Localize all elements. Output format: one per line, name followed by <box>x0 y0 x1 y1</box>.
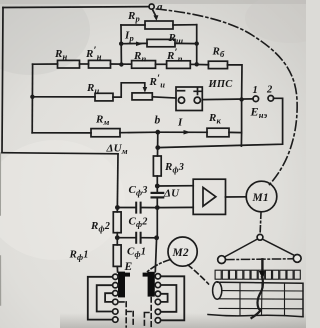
junction dot Cf2 left <box>115 205 120 210</box>
resistor Rf2 (vertical) <box>113 212 121 233</box>
wire Rf3 to Cf3 <box>156 176 158 193</box>
resistor Rpn' <box>167 61 191 69</box>
recorder scale bar <box>215 270 221 279</box>
wire IPS to bus junction and terminal 1 <box>202 98 253 101</box>
wire Rn to Rn-prime <box>80 63 89 65</box>
wire top from left frame corner to node a <box>3 6 149 9</box>
wire Rb to right bus corner <box>228 65 243 100</box>
node a <box>149 4 154 9</box>
right switch wiper bar <box>148 272 155 297</box>
left switch dashed continuation <box>120 302 134 327</box>
node b <box>155 130 160 135</box>
wire Ri to wiper riser <box>113 83 145 97</box>
svg-text:M1: M1 <box>252 192 269 204</box>
svg-text:2: 2 <box>266 85 273 96</box>
motor M1 <box>246 181 277 212</box>
pulley left <box>218 256 226 264</box>
right switch contacts <box>155 274 160 279</box>
box IPS (normal-element comparator) <box>176 87 202 111</box>
junction dot Cf1 right on bus <box>154 235 159 240</box>
dash-dot carriage cord <box>226 258 293 261</box>
junction dot Ri row <box>30 95 34 99</box>
potentiometer Ri' <box>132 93 152 100</box>
left switch contacts <box>113 274 118 279</box>
svg-text:b: b <box>155 115 161 127</box>
svg-text:I: I <box>177 117 183 129</box>
wire b bus down to Rf3 <box>157 132 159 156</box>
wire Cf3 down to lower tap <box>156 198 158 238</box>
wire Rsh row right <box>175 42 197 44</box>
recorder cord triangle <box>224 239 296 258</box>
resistor Rn <box>58 60 80 68</box>
svg-text:ИПС: ИПС <box>208 79 234 90</box>
junction dots top loop <box>119 42 123 46</box>
left switch wiper bar <box>118 272 125 298</box>
wire Rpn-prime to junction <box>190 63 208 65</box>
junction dot Cf1 left <box>115 235 120 240</box>
wire left outer bus <box>2 8 3 153</box>
wire top-loop right vertical <box>196 25 198 65</box>
pen arrow <box>261 259 263 271</box>
op-amp box (amplifier) <box>193 179 225 214</box>
resistor Rpn <box>132 61 156 69</box>
recorded trace <box>252 277 263 318</box>
wire Rf1 to left wiper <box>116 266 118 272</box>
wire wiper arrow from node a to Rp <box>152 9 156 16</box>
wire amp output to M1 <box>226 196 247 198</box>
resistor Rp <box>145 21 173 29</box>
wire amp input lower <box>157 206 193 208</box>
wire inner-left bus vertical <box>31 64 33 133</box>
wire amp input upper <box>157 185 193 187</box>
wire Rk to right bus <box>229 131 242 133</box>
resistor Ri <box>95 93 113 101</box>
terminal 1 <box>253 96 259 102</box>
wire terminal 2 return loop right and down <box>158 98 283 147</box>
left switch brackets <box>88 277 113 320</box>
wire right bus down through Rk junction <box>240 100 242 147</box>
dash-dot link M1 down to recorder <box>259 212 262 234</box>
svg-text:1: 1 <box>253 85 258 96</box>
wire Rm to node b <box>120 131 158 134</box>
wire Ri' to IPS box <box>152 97 176 98</box>
resistor Rb <box>208 61 227 68</box>
svg-text:E: E <box>124 261 133 273</box>
pulley right <box>293 255 301 263</box>
capacitor Cf3 (in bus, horizontal plates) <box>152 192 164 194</box>
wire top-loop left vertical <box>120 25 122 65</box>
junction dot below b <box>155 145 160 150</box>
terminal plus inside IPS <box>194 97 200 103</box>
resistor Rk <box>207 128 229 137</box>
chart grid horizontals <box>219 291 303 309</box>
wire b row with current I arrow <box>158 131 207 133</box>
wire Rn row segments <box>33 63 58 65</box>
right switch dashed continuation <box>144 298 151 328</box>
junction node lower amp tap <box>155 205 160 210</box>
terminal 2 <box>268 96 274 102</box>
wire Rp row left <box>121 24 145 26</box>
big dash-dot mechanical arc from node a to M1 <box>157 9 298 185</box>
chart drum roller end <box>213 282 222 299</box>
svg-text:a: a <box>157 1 163 13</box>
right switch brackets <box>161 276 185 320</box>
chart grid verticals <box>240 283 285 316</box>
mechanical dash-dot link M2 to right wiper <box>148 260 171 272</box>
motor M2 <box>168 237 197 266</box>
wire bottom outer to filter bend <box>2 153 118 154</box>
wire filter left bus from outer bend down <box>116 154 119 212</box>
wire Rp row right <box>173 24 197 26</box>
wire Rn-prime to junction <box>111 63 132 65</box>
wire right bus down to right wiper <box>155 238 156 272</box>
resistor Rf3 (vertical) <box>153 156 161 176</box>
svg-text:ΔU: ΔU <box>163 188 180 200</box>
wire between Rf2 and Rf1 <box>116 233 118 245</box>
wire Rpn to Rpn-prime <box>156 63 167 65</box>
terminal minus inside IPS <box>178 97 184 103</box>
wire Rsh row left with Ip arrow <box>121 42 147 44</box>
scan edge artifact left <box>0 153 2 305</box>
capacitor Cf1 row <box>117 237 156 239</box>
dashed link M2 to chart drum <box>188 265 209 284</box>
capacitor Cf2 row <box>117 207 157 209</box>
junction node upper amp tap <box>155 184 160 189</box>
chart paper outline <box>218 282 304 316</box>
svg-text:M2: M2 <box>172 247 189 259</box>
recorder apex pulley <box>257 234 263 240</box>
resistor Rf1 (vertical) <box>113 245 121 267</box>
resistor Rm <box>32 132 91 134</box>
amplifier triangle <box>203 187 216 206</box>
resistor Rn' <box>89 60 111 68</box>
resistor Rsh <box>147 39 175 46</box>
wire Ri row <box>32 96 95 98</box>
